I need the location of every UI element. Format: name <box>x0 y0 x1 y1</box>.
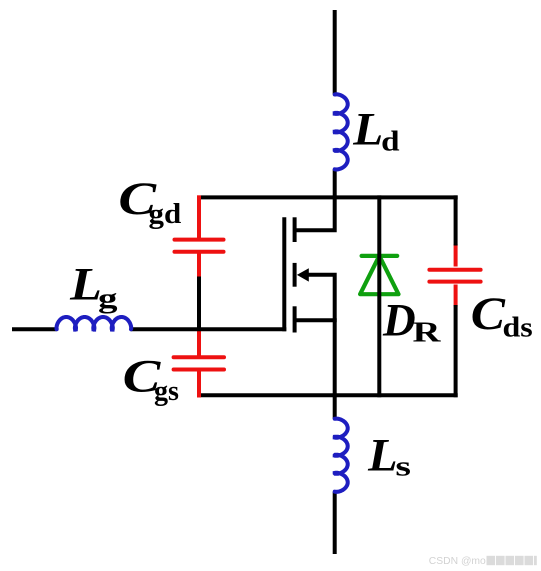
svg-text:ds: ds <box>503 312 533 344</box>
svg-text:R: R <box>413 316 442 348</box>
svg-text:D: D <box>382 295 416 347</box>
svg-text:s: s <box>395 451 411 483</box>
svg-text:gs: gs <box>154 375 179 407</box>
svg-text:L: L <box>352 104 383 156</box>
svg-text:gd: gd <box>149 198 182 230</box>
svg-text:L: L <box>367 430 398 482</box>
svg-text:g: g <box>98 283 118 315</box>
svg-text:CSDN @mo: CSDN @mo <box>429 555 486 567</box>
svg-text:C: C <box>471 288 506 340</box>
svg-text:d: d <box>381 126 399 158</box>
